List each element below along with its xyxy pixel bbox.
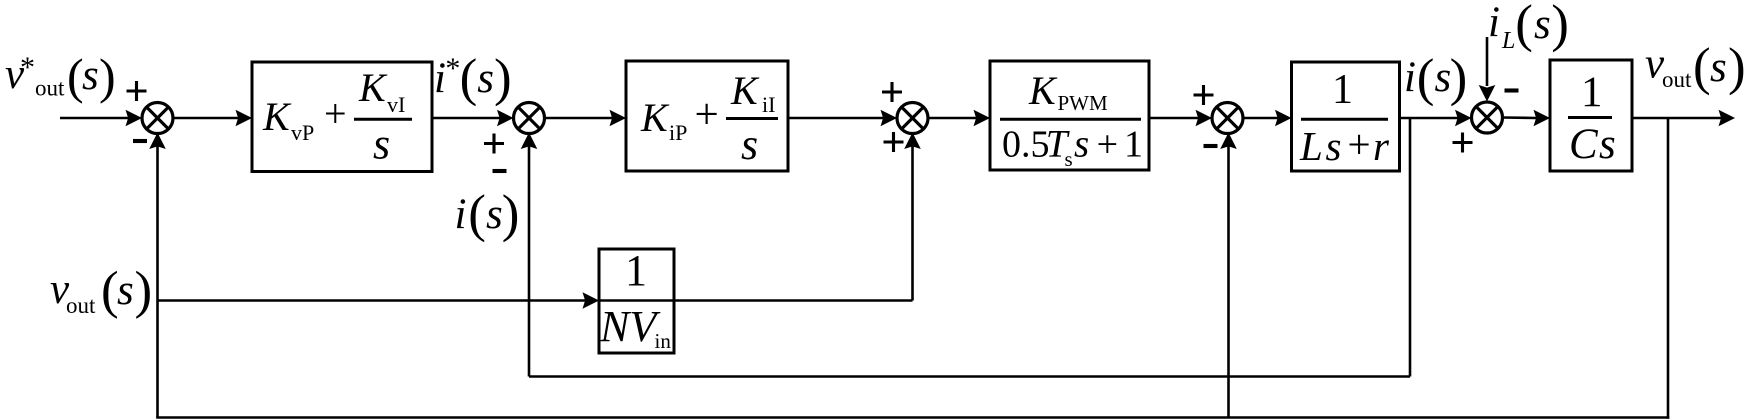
svg-text:s: s xyxy=(486,191,503,238)
svg-text:K: K xyxy=(1028,68,1058,113)
svg-text:*: * xyxy=(20,51,35,84)
svg-text:i: i xyxy=(1404,54,1416,101)
svg-text:1: 1 xyxy=(1581,69,1603,116)
svg-text:K: K xyxy=(730,68,760,113)
svg-text:out: out xyxy=(66,293,96,318)
svg-text:s: s xyxy=(1074,123,1089,166)
svg-text:(: ( xyxy=(468,185,486,243)
svg-text:(: ( xyxy=(1693,38,1711,96)
svg-text:+: + xyxy=(695,92,719,139)
svg-text:PWM: PWM xyxy=(1058,91,1109,115)
svg-text:L: L xyxy=(1501,28,1515,54)
svg-text:i: i xyxy=(1488,0,1500,46)
svg-text:r: r xyxy=(1373,123,1390,169)
svg-text:s: s xyxy=(1534,1,1551,48)
svg-text:L: L xyxy=(1299,123,1323,169)
svg-text:vP: vP xyxy=(291,120,314,145)
svg-text:out: out xyxy=(35,76,65,101)
svg-text:+: + xyxy=(1097,124,1118,166)
svg-text:(: ( xyxy=(1515,0,1533,53)
svg-text:): ) xyxy=(494,49,512,107)
svg-text:): ) xyxy=(99,48,116,104)
svg-text:i: i xyxy=(434,55,446,102)
svg-text:+: + xyxy=(324,91,347,136)
svg-text:s: s xyxy=(477,55,494,102)
svg-text:out: out xyxy=(1662,67,1692,92)
svg-text:s: s xyxy=(82,52,99,99)
svg-text:1: 1 xyxy=(1124,124,1143,166)
svg-text:s: s xyxy=(1599,121,1616,168)
svg-text:): ) xyxy=(1450,49,1468,107)
svg-text:*: * xyxy=(445,52,460,85)
svg-text:vI: vI xyxy=(387,92,405,117)
svg-text:): ) xyxy=(1728,38,1746,96)
svg-text:s: s xyxy=(1710,44,1727,91)
svg-text:s: s xyxy=(741,120,758,169)
svg-text:s: s xyxy=(373,120,390,169)
svg-text:1: 1 xyxy=(1332,67,1353,113)
svg-text:s: s xyxy=(1065,147,1073,171)
svg-text:(: ( xyxy=(101,262,119,320)
svg-text:0.5: 0.5 xyxy=(1002,124,1050,166)
svg-text:iI: iI xyxy=(762,92,775,117)
svg-text:i: i xyxy=(455,191,467,238)
svg-text:+: + xyxy=(1348,121,1371,167)
svg-text:s: s xyxy=(117,267,134,314)
svg-text:(: ( xyxy=(1417,49,1435,107)
svg-text:iP: iP xyxy=(669,120,687,145)
svg-text:in: in xyxy=(655,329,672,353)
svg-text:1: 1 xyxy=(625,246,647,295)
svg-text:s: s xyxy=(1326,123,1342,169)
svg-text:NV: NV xyxy=(599,302,661,351)
svg-text:): ) xyxy=(135,262,153,320)
svg-text:K: K xyxy=(358,65,388,110)
svg-text:(: ( xyxy=(460,49,478,107)
svg-text:K: K xyxy=(640,95,670,140)
svg-text:K: K xyxy=(262,94,292,139)
svg-text:): ) xyxy=(502,185,520,243)
svg-text:): ) xyxy=(1551,0,1569,53)
svg-text:C: C xyxy=(1569,121,1599,168)
